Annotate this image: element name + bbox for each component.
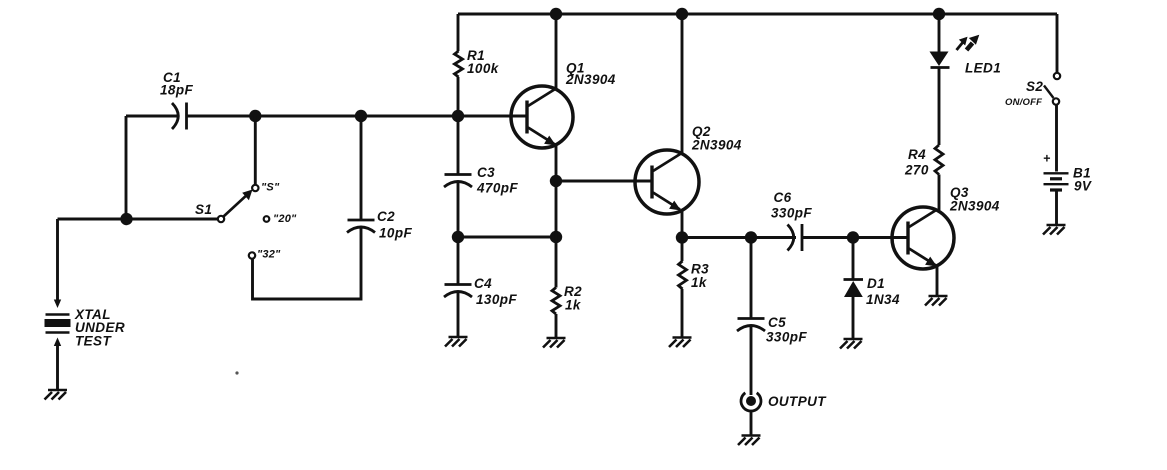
wire: LED to R4: [938, 68, 941, 145]
wire: riser S contact to signal row: [254, 116, 257, 185]
svg-text:10pF: 10pF: [379, 226, 412, 241]
svg-text:1N34: 1N34: [866, 292, 900, 307]
wire: C5 bottom to output jack: [750, 325, 753, 395]
resistor R4: [935, 145, 943, 175]
wire: Q1 emitter node to R2: [555, 181, 558, 288]
svg-text:S1: S1: [195, 202, 212, 217]
wire: Q2 emitter row to C6: [682, 236, 796, 239]
wire: D1 anode riser: [852, 238, 855, 280]
switch S1 arm: [224, 193, 250, 217]
transistor Q2 body: [635, 150, 699, 214]
transistor Q3 collector lead: [909, 210, 937, 228]
transistor Q3 body: [892, 207, 954, 269]
wire: Q3 emitter to ground: [936, 267, 939, 296]
svg-text:D1: D1: [867, 276, 885, 291]
wire: row C3/C4 to R2: [458, 236, 556, 239]
resistor R1: [455, 51, 463, 77]
svg-text:C4: C4: [474, 276, 492, 291]
diode D1 cathode bar: [844, 278, 864, 281]
wire: top supply rail: [458, 13, 1057, 16]
wire: rail to LED: [938, 14, 941, 52]
svg-text:TEST: TEST: [75, 334, 112, 349]
connector OUTPUT jack center pin: [746, 396, 756, 406]
svg-text:9V: 9V: [1074, 179, 1092, 194]
svg-text:R4: R4: [908, 147, 926, 162]
ground: XTAL: [45, 390, 68, 400]
capacitor C6: [801, 224, 804, 251]
speck (scan artifact): [235, 371, 238, 374]
wire: R2 to ground: [555, 314, 558, 337]
ground: OUTPUT jack: [738, 436, 761, 446]
LED LED1 cathode bar: [931, 66, 950, 69]
LED LED1 triangle: [930, 52, 949, 67]
wire: drop to XTAL: [56, 219, 59, 301]
transistor Q1 base bar: [525, 101, 528, 134]
wire: rail drop to R1 top: [457, 14, 460, 51]
svg-text:C3: C3: [477, 165, 495, 180]
battery B1 plate 2: [1050, 177, 1062, 180]
svg-text:1k: 1k: [565, 298, 582, 313]
wire: rail corner to S2: [1056, 14, 1059, 73]
svg-text:S2: S2: [1026, 79, 1043, 94]
wire: S2 to battery: [1055, 105, 1058, 172]
junction: D1 node: [847, 231, 859, 243]
svg-text:C2: C2: [377, 209, 395, 224]
junction: C4 top node: [452, 231, 464, 243]
switch S1 contact S: [252, 185, 258, 191]
transistor Q1 collector lead: [528, 89, 556, 107]
svg-text:270: 270: [904, 163, 929, 178]
svg-text:"32": "32": [257, 249, 281, 261]
ground: C4: [445, 337, 468, 347]
capacitor C1: [185, 103, 188, 130]
svg-text:"S": "S": [261, 182, 280, 194]
battery B1 plate 4: [1050, 188, 1062, 191]
ground: R2: [543, 338, 566, 348]
svg-text:18pF: 18pF: [160, 83, 193, 98]
svg-text:2N3904: 2N3904: [691, 138, 742, 153]
svg-text:C6: C6: [774, 190, 792, 205]
wire: output jack to ground: [750, 411, 753, 435]
svg-text:100k: 100k: [467, 61, 500, 76]
junction: node S1-S contact riser: [249, 110, 261, 122]
resistor R2: [552, 288, 560, 315]
junction: Q2 emitter node: [676, 231, 688, 243]
ground: D1: [840, 339, 863, 349]
crystal XTAL under test body: [45, 319, 71, 327]
capacitor C3: [445, 173, 472, 176]
svg-text:OUTPUT: OUTPUT: [768, 394, 827, 409]
switch S2 top contact: [1054, 73, 1060, 79]
connector OUTPUT jack ring: [741, 393, 761, 411]
arrow up from ground to XTAL: [54, 338, 61, 347]
capacitor C4: [445, 283, 472, 286]
svg-text:330pF: 330pF: [766, 330, 807, 345]
wire: left drop from C1 to S1 row: [125, 116, 128, 219]
transistor Q3 emitter arrow: [925, 257, 937, 267]
svg-text:C5: C5: [768, 315, 786, 330]
svg-text:130pF: 130pF: [476, 292, 517, 307]
transistor Q2 collector lead: [653, 154, 681, 172]
battery B1 plate 3: [1044, 183, 1069, 185]
LED LED1 light arrows: [957, 36, 979, 51]
wire: Q2 collector to rail: [681, 14, 684, 154]
svg-text:2N3904: 2N3904: [565, 72, 616, 87]
wire: S1 row horizontal: [58, 218, 219, 221]
junction: LED branch at rail: [933, 8, 945, 20]
switch S2 bottom contact: [1053, 98, 1059, 104]
switch S1 arm arrowhead: [242, 190, 252, 201]
transistor Q1 body: [511, 86, 573, 148]
wire: C4 top: [457, 237, 460, 285]
wire: C3 bottom to row: [457, 181, 460, 237]
wire: C5 top: [750, 238, 753, 319]
transistor Q2 base bar: [650, 166, 653, 199]
svg-text:ON/OFF: ON/OFF: [1005, 97, 1042, 108]
svg-text:1k: 1k: [691, 275, 708, 290]
battery B1 plate 1: [1044, 172, 1069, 174]
svg-text:2N3904: 2N3904: [949, 199, 1000, 214]
transistor Q1 emitter lead: [528, 128, 555, 145]
resistor R3: [679, 261, 687, 289]
wire: C2 bottom to contact 32: [253, 227, 362, 299]
junction: Q1 collector at rail: [550, 8, 562, 20]
transistor Q2 emitter arrow: [669, 201, 681, 211]
capacitor C5: [738, 317, 765, 320]
capacitor C2: [348, 219, 375, 222]
junction: Q2 collector at rail: [676, 8, 688, 20]
transistor Q2 emitter lead: [653, 193, 680, 210]
wire: Q1 emitter down: [555, 146, 558, 181]
ground: R3: [669, 338, 692, 348]
wire: signal row C1 to Q1 base: [126, 115, 179, 118]
crystal XTAL under test bottom plate: [46, 331, 70, 334]
switch S2 arm: [1044, 86, 1054, 99]
junction: R2 top node: [550, 231, 562, 243]
svg-text:+: +: [1043, 152, 1051, 166]
svg-text:"20": "20": [273, 213, 297, 225]
wire: R3 top: [681, 238, 684, 262]
wire: battery to ground: [1055, 192, 1058, 225]
switch S1 contact 20: [264, 216, 270, 222]
transistor Q3 base bar: [906, 222, 909, 255]
junction: Q1 emitter node: [550, 175, 562, 187]
ground: Q3 emitter: [925, 296, 948, 306]
wire: R1 bottom to base node: [457, 77, 460, 116]
svg-text:330pF: 330pF: [771, 206, 812, 221]
wire: Q2 emitter down: [681, 211, 684, 238]
transistor Q3 emitter lead: [909, 249, 936, 266]
wire: R3 to ground: [681, 289, 684, 337]
junction: node C2 top: [355, 110, 367, 122]
switch S1 pivot contact: [218, 216, 224, 222]
wire: Q1 emitter to Q2 base: [556, 180, 652, 183]
wire: R4 to Q3 collector: [938, 175, 941, 211]
transistor Q1 emitter arrow: [544, 136, 556, 146]
wire: base node to C3: [457, 116, 460, 175]
crystal XTAL under test top plate: [46, 313, 70, 316]
wire: C4 bottom to ground: [457, 291, 460, 336]
wire: XTAL to ground: [56, 345, 59, 389]
ground: battery B1: [1043, 225, 1066, 235]
wire: C1 right plate to Q1 base: [187, 115, 528, 118]
wire: Q1 collector to rail: [555, 14, 558, 89]
svg-text:470pF: 470pF: [476, 181, 518, 196]
wire: D1 to ground: [852, 297, 855, 338]
junction: C5 top node: [745, 231, 757, 243]
junction: XTAL branch: [120, 213, 132, 225]
diode D1 triangle: [844, 281, 863, 297]
wire: C2 top: [360, 116, 363, 220]
wire: C6 to Q3 base: [802, 236, 908, 239]
switch S1 contact 32: [249, 252, 255, 258]
junction: node R1/C3: [452, 110, 464, 122]
svg-text:LED1: LED1: [965, 61, 1001, 76]
arrow down to XTAL: [54, 300, 61, 309]
